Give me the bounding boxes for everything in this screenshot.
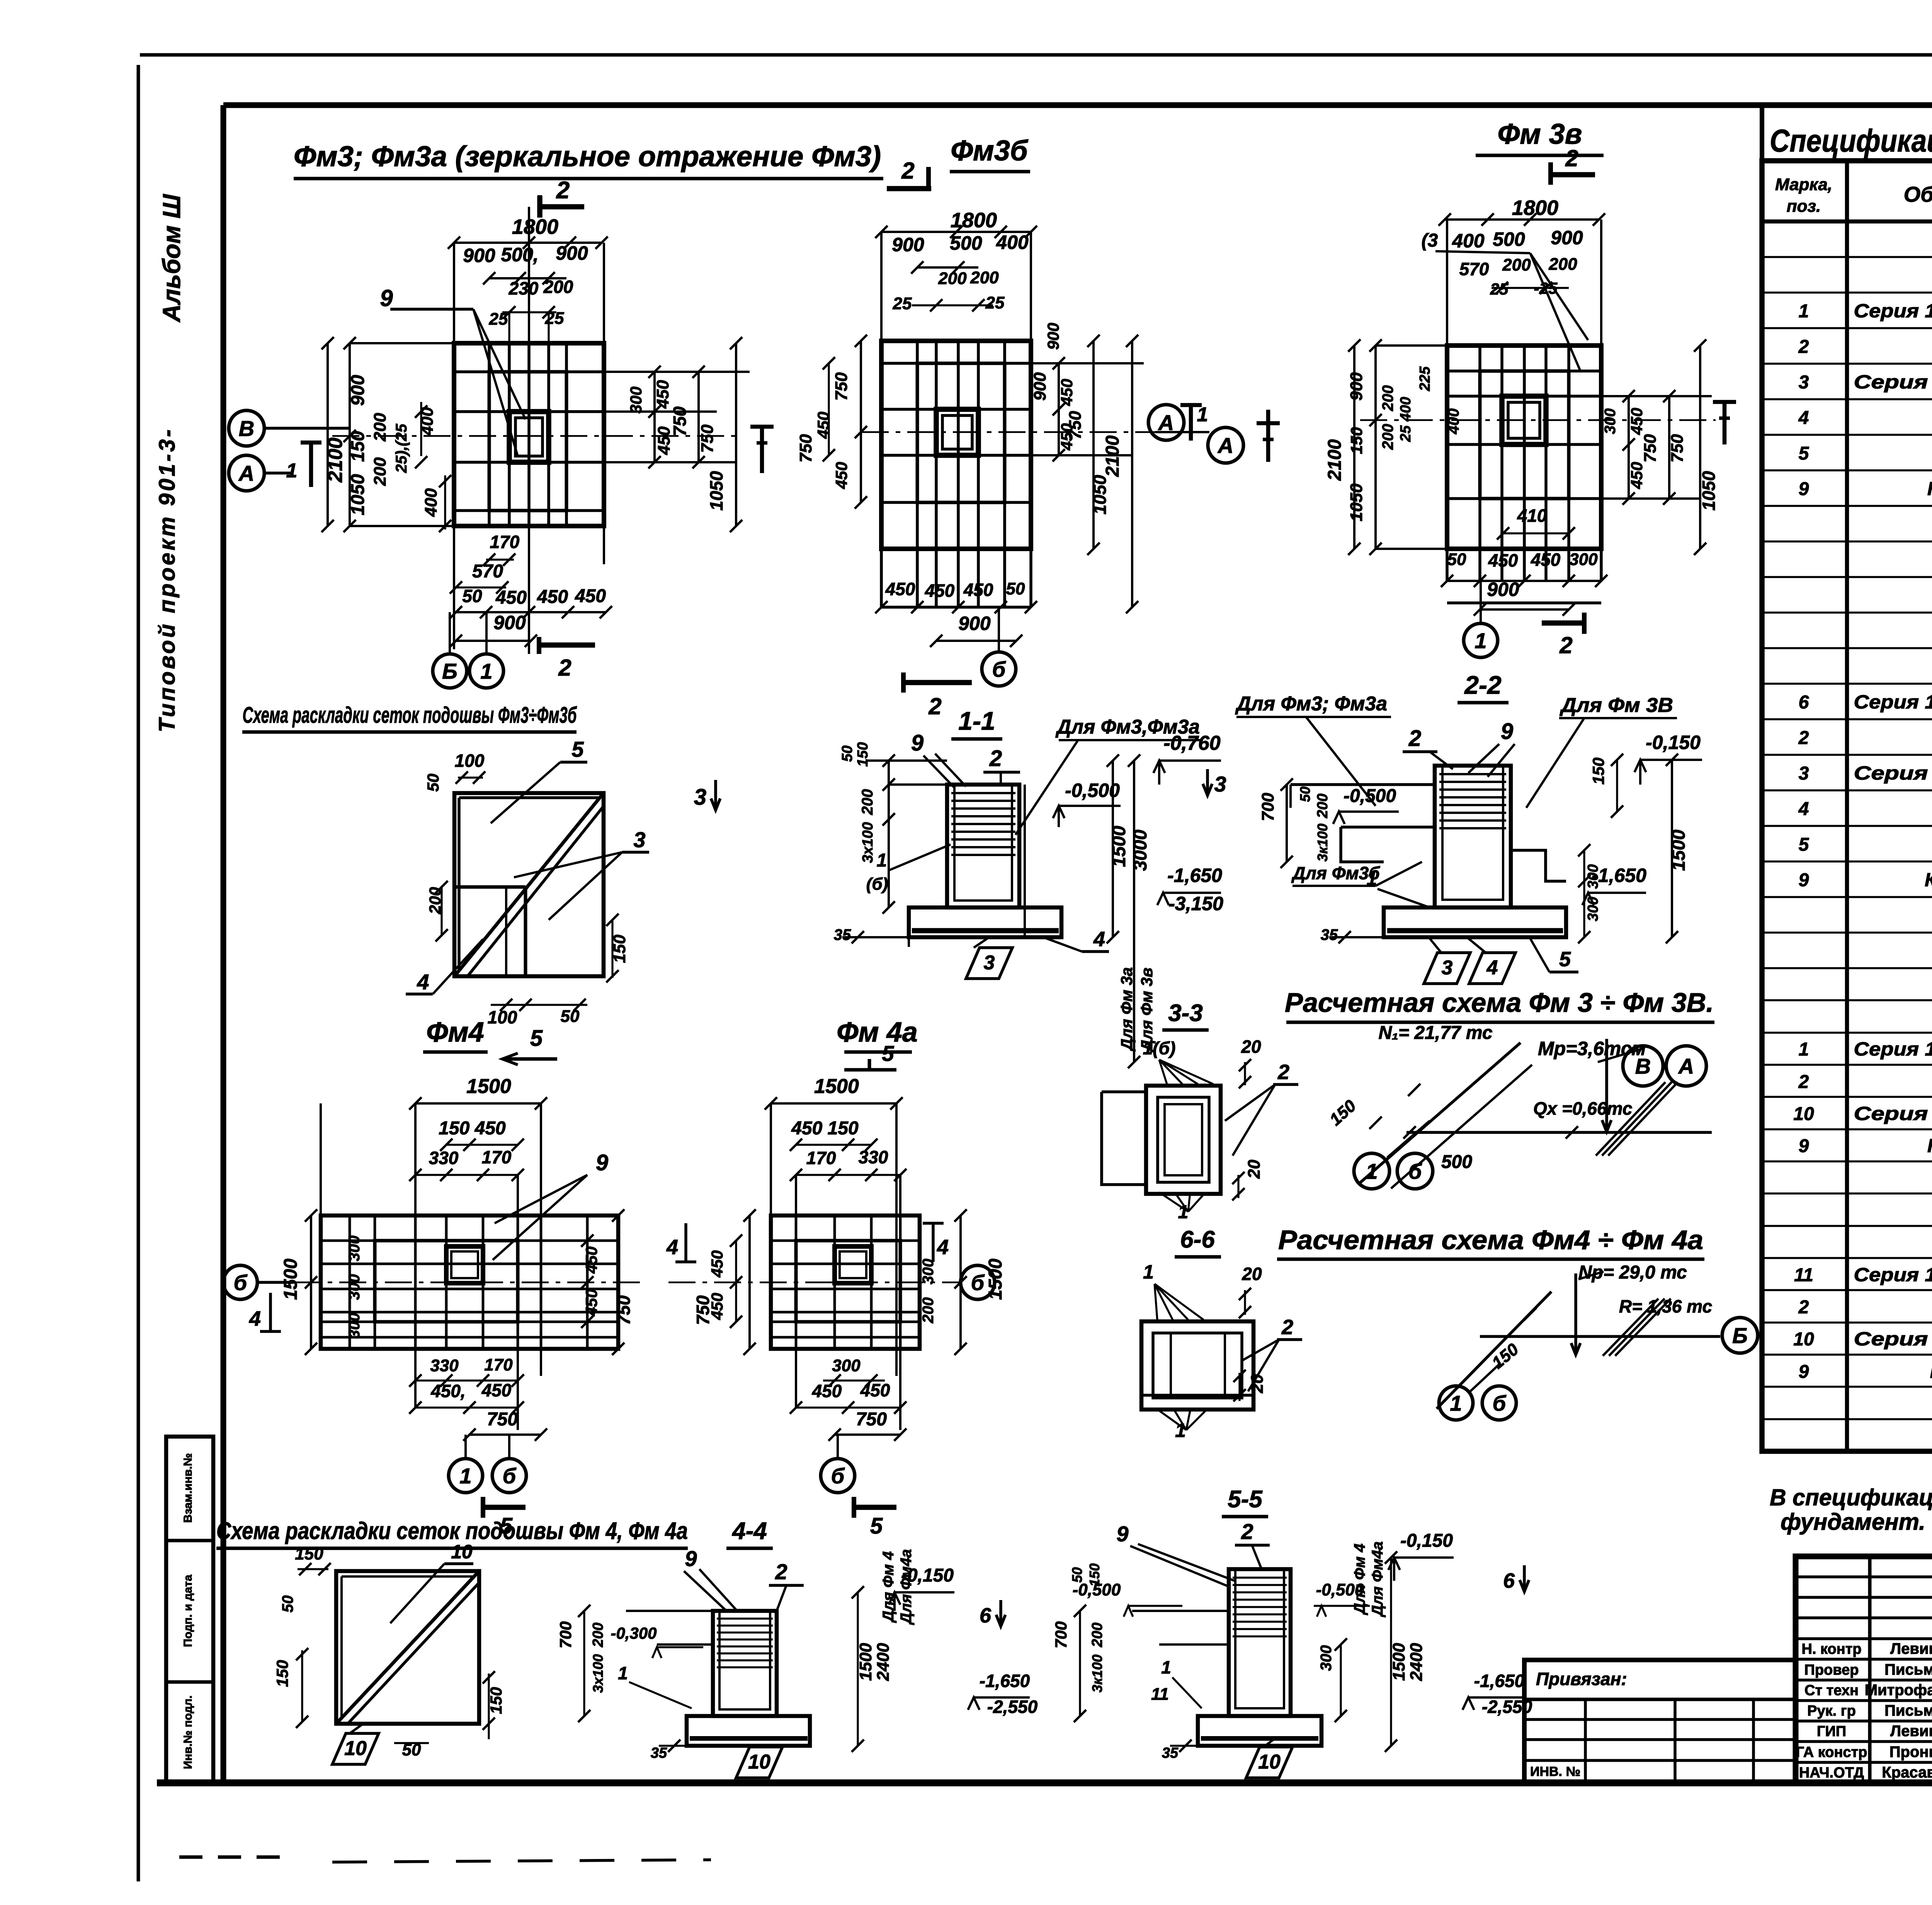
svg-text:450: 450 <box>653 380 672 409</box>
svg-text:35: 35 <box>1162 1745 1179 1761</box>
svg-text:750: 750 <box>698 424 717 453</box>
svg-text:300: 300 <box>1569 550 1598 569</box>
svg-text:R= 1,36 тс: R= 1,36 тс <box>1619 1296 1712 1316</box>
svg-text:700: 700 <box>1259 793 1277 821</box>
svg-text:150: 150 <box>1087 1563 1102 1587</box>
svg-text:450: 450 <box>1488 550 1518 570</box>
svg-text:ГИП: ГИП <box>1817 1723 1846 1740</box>
svg-text:50: 50 <box>1297 787 1313 802</box>
svg-text:1500: 1500 <box>856 1643 875 1681</box>
svg-text:2: 2 <box>556 177 570 204</box>
svg-text:25 400: 25 400 <box>1398 397 1414 442</box>
svg-text:Расчетная схема Фм 3 ÷ Фм 3В.: Расчетная схема Фм 3 ÷ Фм 3В. <box>1285 987 1714 1018</box>
svg-text:10: 10 <box>1793 1329 1814 1350</box>
svg-text:-1,650: -1,650 <box>1474 1671 1525 1691</box>
svg-text:б: б <box>1493 1391 1507 1415</box>
svg-text:-1,650: -1,650 <box>980 1671 1030 1691</box>
svg-text:200: 200 <box>371 457 389 486</box>
svg-text:750: 750 <box>487 1409 518 1430</box>
svg-text:Красавин: Красавин <box>1882 1764 1932 1781</box>
svg-text:1800: 1800 <box>951 209 997 232</box>
svg-text:450: 450 <box>885 579 915 599</box>
svg-text:-0,500: -0,500 <box>1344 786 1396 806</box>
svg-text:КЖИ- МН1: КЖИ- МН1 <box>1927 1136 1932 1156</box>
svg-text:3: 3 <box>1214 772 1226 796</box>
svg-text:Рук. гр: Рук. гр <box>1807 1703 1856 1719</box>
svg-text:750: 750 <box>832 372 851 401</box>
svg-text:170: 170 <box>484 1355 513 1374</box>
svg-text:Серия 1.410-2 Вып.1: Серия 1.410-2 Вып.1 <box>1854 1103 1932 1124</box>
svg-text:Расчетная схема Фм4 ÷ Фм 4а: Расчетная схема Фм4 ÷ Фм 4а <box>1278 1225 1703 1255</box>
svg-text:3-3: 3-3 <box>1168 1000 1203 1027</box>
svg-text:20: 20 <box>1245 1159 1264 1179</box>
svg-text:300: 300 <box>346 1274 363 1300</box>
svg-text:Привязан:: Привязан: <box>1536 1669 1627 1689</box>
svg-text:-0,300: -0,300 <box>611 1624 656 1642</box>
svg-text:5: 5 <box>1559 948 1571 971</box>
svg-text:200: 200 <box>970 268 999 287</box>
svg-text:50: 50 <box>1006 579 1025 598</box>
svg-text:150: 150 <box>348 431 368 462</box>
svg-text:Серия 1.412-1/77 Вып.3: Серия 1.412-1/77 Вып.3 <box>1854 301 1932 322</box>
svg-text:450: 450 <box>1628 462 1646 489</box>
svg-text:50: 50 <box>462 586 482 606</box>
svg-text:300: 300 <box>1318 1645 1335 1671</box>
svg-text:б: б <box>234 1270 248 1295</box>
svg-text:А: А <box>238 461 254 485</box>
svg-text:1500: 1500 <box>1109 826 1129 867</box>
svg-text:Взам.инв.№: Взам.инв.№ <box>182 1453 194 1523</box>
svg-text:400: 400 <box>1445 409 1462 435</box>
svg-text:900: 900 <box>1347 372 1366 401</box>
svg-text:Н. контр: Н. контр <box>1801 1641 1861 1657</box>
svg-text:750: 750 <box>796 434 815 463</box>
svg-text:5-5: 5-5 <box>1228 1486 1263 1513</box>
svg-text:1500: 1500 <box>1668 829 1689 871</box>
svg-text:1: 1 <box>1366 1159 1378 1183</box>
svg-text:5: 5 <box>870 1513 883 1539</box>
svg-text:1050: 1050 <box>1699 471 1719 511</box>
svg-text:750: 750 <box>856 1409 887 1430</box>
svg-text:4: 4 <box>1093 928 1105 951</box>
svg-text:450: 450 <box>1628 408 1646 435</box>
svg-text:25: 25 <box>545 309 564 328</box>
svg-text:Серия 1.412-1/77 Вып.3: Серия 1.412-1/77 Вып.3 <box>1854 1265 1932 1285</box>
svg-text:450: 450 <box>481 1380 512 1400</box>
svg-text:Мр=3,6тсм: Мр=3,6тсм <box>1538 1038 1646 1059</box>
svg-text:2100: 2100 <box>1102 435 1123 477</box>
svg-text:2: 2 <box>928 693 941 719</box>
svg-text:330: 330 <box>859 1147 888 1167</box>
svg-text:1: 1 <box>1799 301 1809 322</box>
svg-text:3: 3 <box>1442 957 1453 979</box>
svg-text:б: б <box>503 1464 517 1488</box>
svg-text:10: 10 <box>748 1751 770 1773</box>
svg-text:150: 150 <box>273 1660 291 1687</box>
svg-text:5: 5 <box>530 1026 543 1051</box>
svg-text:3к100: 3к100 <box>1315 824 1330 861</box>
svg-text:450: 450 <box>708 1250 726 1278</box>
svg-text:900: 900 <box>556 242 588 264</box>
svg-text:300: 300 <box>1602 409 1619 434</box>
svg-text:3: 3 <box>633 827 645 852</box>
svg-text:200: 200 <box>590 1622 606 1647</box>
svg-text:900: 900 <box>348 375 368 406</box>
svg-text:700: 700 <box>556 1621 575 1648</box>
svg-text:330: 330 <box>429 1148 459 1168</box>
svg-text:150 450: 150 450 <box>439 1118 506 1139</box>
svg-text:2400: 2400 <box>1407 1643 1426 1681</box>
svg-text:900: 900 <box>493 612 526 633</box>
svg-text:170: 170 <box>806 1148 836 1168</box>
svg-text:Серия 1.410-2 Вып.1: Серия 1.410-2 Вып.1 <box>1854 372 1932 393</box>
svg-text:330: 330 <box>430 1356 459 1375</box>
svg-text:10: 10 <box>451 1541 473 1563</box>
svg-text:300: 300 <box>346 1313 363 1339</box>
svg-text:2: 2 <box>558 655 571 681</box>
svg-text:1-1: 1-1 <box>958 707 995 735</box>
svg-text:(б): (б) <box>866 875 888 894</box>
svg-text:-3,150: -3,150 <box>1168 893 1223 914</box>
svg-text:150: 150 <box>295 1544 323 1563</box>
svg-text:2: 2 <box>1559 632 1572 658</box>
svg-text:200: 200 <box>543 277 573 297</box>
svg-text:230: 230 <box>509 278 539 298</box>
svg-text:10: 10 <box>1793 1104 1814 1124</box>
svg-text:5: 5 <box>571 737 584 761</box>
svg-text:170: 170 <box>490 532 520 552</box>
svg-text:170: 170 <box>482 1147 512 1167</box>
svg-text:1050: 1050 <box>1090 475 1110 514</box>
svg-text:50: 50 <box>1069 1567 1085 1583</box>
svg-text:450: 450 <box>812 1381 842 1401</box>
svg-text:3000: 3000 <box>1130 829 1151 871</box>
svg-text:КЖИ - МН1: КЖИ - МН1 <box>1925 870 1932 890</box>
svg-text:450 150: 450 150 <box>791 1118 859 1139</box>
svg-text:ИНВ. №: ИНВ. № <box>1530 1764 1580 1779</box>
svg-text:11: 11 <box>1794 1265 1813 1285</box>
svg-text:4: 4 <box>937 1236 949 1259</box>
svg-text:б: б <box>831 1464 845 1488</box>
svg-text:2: 2 <box>1565 145 1578 171</box>
svg-text:570: 570 <box>1459 259 1489 279</box>
svg-text:1: 1 <box>1161 1657 1171 1677</box>
svg-text:1050: 1050 <box>348 474 368 515</box>
svg-text:450: 450 <box>582 1289 600 1316</box>
svg-text:Провер: Провер <box>1804 1662 1859 1678</box>
svg-text:25: 25 <box>489 310 508 329</box>
svg-text:450: 450 <box>495 587 527 608</box>
svg-text:9: 9 <box>1799 1362 1809 1382</box>
svg-text:Подп. и дата: Подп. и дата <box>182 1575 194 1647</box>
svg-text:9: 9 <box>380 285 393 311</box>
svg-text:1: 1 <box>1197 403 1208 426</box>
svg-text:200: 200 <box>371 413 389 442</box>
svg-text:Для Фм 3В: Для Фм 3В <box>1560 694 1673 717</box>
svg-text:2: 2 <box>1798 337 1809 357</box>
svg-text:200: 200 <box>1379 385 1396 412</box>
svg-text:9: 9 <box>1501 719 1513 744</box>
svg-text:450: 450 <box>925 581 955 601</box>
svg-text:500: 500 <box>1441 1152 1472 1172</box>
svg-text:Серия 1.412-1/77 Вып.3: Серия 1.412-1/77 Вып.3 <box>1854 1039 1932 1060</box>
svg-text:10: 10 <box>1258 1751 1281 1773</box>
svg-text:-1,650: -1,650 <box>1167 865 1222 886</box>
svg-text:Фм 4а: Фм 4а <box>837 1017 918 1048</box>
svg-text:Серия 1.410-2 Вып.1: Серия 1.410-2 Вып.1 <box>1854 763 1932 784</box>
svg-text:4: 4 <box>1798 408 1809 428</box>
svg-text:100: 100 <box>455 751 485 771</box>
svg-text:3: 3 <box>694 785 706 810</box>
svg-text:2: 2 <box>901 158 914 184</box>
svg-text:50: 50 <box>424 774 442 792</box>
svg-text:200: 200 <box>1548 255 1577 274</box>
svg-text:Для Фм 3а: Для Фм 3а <box>1117 967 1136 1051</box>
svg-text:750: 750 <box>670 406 690 436</box>
svg-text:6: 6 <box>980 1604 992 1627</box>
svg-text:1500: 1500 <box>466 1075 511 1098</box>
svg-text:1500: 1500 <box>814 1075 859 1098</box>
svg-text:900: 900 <box>958 613 991 634</box>
svg-text:Для Фм 4: Для Фм 4 <box>1351 1544 1368 1616</box>
svg-text:20: 20 <box>1242 1264 1262 1284</box>
svg-text:3x100: 3x100 <box>590 1654 606 1693</box>
svg-text:500: 500 <box>950 232 982 254</box>
svg-text:-0,760: -0,760 <box>1163 732 1221 754</box>
svg-text:Фм3; Фм3а (зеркальное отражени: Фм3; Фм3а (зеркальное отражение Фм3) <box>294 140 881 172</box>
svg-text:В спецификации в графе „примеч: В спецификации в графе „примечание" дан … <box>1770 1485 1932 1510</box>
svg-text:1: 1 <box>877 850 887 871</box>
svg-text:1(б): 1(б) <box>1143 1038 1176 1058</box>
svg-text:N₁= 21,77 тс: N₁= 21,77 тс <box>1378 1023 1492 1043</box>
svg-text:(3: (3 <box>1422 230 1438 251</box>
svg-text:900: 900 <box>1487 579 1519 600</box>
svg-text:5: 5 <box>1799 443 1810 464</box>
svg-text:2: 2 <box>1408 726 1421 751</box>
svg-text:поз.: поз. <box>1787 197 1821 216</box>
svg-text:2: 2 <box>1281 1316 1293 1339</box>
svg-text:750: 750 <box>693 1295 713 1325</box>
svg-text:400: 400 <box>1452 230 1485 252</box>
svg-text:1: 1 <box>1799 1039 1809 1060</box>
svg-text:Типовой проект 901-3-: Типовой проект 901-3- <box>155 427 180 732</box>
svg-text:Альбом Ш: Альбом Ш <box>158 194 185 323</box>
svg-text:500,: 500, <box>501 244 538 266</box>
svg-text:Qх =0,66тс: Qх =0,66тс <box>1533 1098 1632 1118</box>
svg-text:б: б <box>1408 1159 1422 1183</box>
svg-text:4: 4 <box>417 970 429 994</box>
svg-text:1: 1 <box>1367 869 1377 889</box>
svg-text:4-4: 4-4 <box>731 1518 767 1544</box>
svg-text:900: 900 <box>1031 372 1049 401</box>
svg-text:900: 900 <box>1044 323 1062 350</box>
svg-text:400: 400 <box>422 488 440 517</box>
svg-text:450: 450 <box>832 462 850 489</box>
svg-text:КЖИ-МН1: КЖИ-МН1 <box>1930 1361 1932 1382</box>
svg-text:9: 9 <box>1799 870 1809 890</box>
svg-text:Б: Б <box>442 659 457 683</box>
svg-text:9: 9 <box>1799 1136 1809 1156</box>
svg-text:500: 500 <box>1493 228 1525 250</box>
svg-text:450: 450 <box>537 587 568 607</box>
svg-text:450: 450 <box>1531 550 1561 570</box>
svg-text:3: 3 <box>1799 763 1809 784</box>
svg-text:Для Фм 4: Для Фм 4 <box>880 1551 897 1623</box>
svg-text:570: 570 <box>472 561 503 582</box>
svg-text:б: б <box>971 1270 985 1295</box>
svg-text:1050: 1050 <box>1347 483 1366 521</box>
svg-text:4: 4 <box>1486 957 1498 979</box>
svg-text:1: 1 <box>1143 1261 1154 1283</box>
svg-text:6: 6 <box>1503 1569 1515 1592</box>
svg-text:25),(25: 25),(25 <box>393 424 410 473</box>
svg-text:300: 300 <box>832 1356 861 1375</box>
svg-text:2-2: 2-2 <box>1464 671 1502 699</box>
svg-text:Пронин: Пронин <box>1889 1743 1932 1760</box>
svg-text:450: 450 <box>860 1380 890 1400</box>
svg-text:200: 200 <box>859 789 876 815</box>
svg-text:11: 11 <box>1151 1685 1169 1704</box>
svg-text:Левина: Левина <box>1890 1723 1932 1740</box>
svg-text:6: 6 <box>1799 692 1809 713</box>
svg-text:225: 225 <box>1417 366 1433 391</box>
svg-text:700: 700 <box>1052 1621 1070 1648</box>
svg-text:В: В <box>1635 1054 1651 1078</box>
svg-text:200: 200 <box>1089 1622 1105 1647</box>
svg-text:-0,150: -0,150 <box>1646 732 1701 753</box>
svg-text:А: А <box>1217 433 1233 458</box>
svg-text:-2,550: -2,550 <box>987 1697 1038 1717</box>
svg-text:5: 5 <box>1799 834 1810 855</box>
svg-text:Схема раскладки сеток подошвы: Схема раскладки сеток подошвы Фм3÷Фм3б <box>243 703 577 728</box>
svg-text:450,: 450, <box>430 1381 466 1401</box>
svg-text:б: б <box>992 657 1006 681</box>
svg-text:1800: 1800 <box>512 215 558 238</box>
svg-text:200: 200 <box>1502 255 1531 274</box>
svg-text:150: 150 <box>1347 427 1366 454</box>
svg-text:300: 300 <box>1585 897 1601 921</box>
svg-text:Для Фм4а: Для Фм4а <box>1369 1541 1386 1617</box>
svg-text:Инв.№ подл.: Инв.№ подл. <box>182 1696 194 1769</box>
svg-text:Б: Б <box>1732 1323 1748 1348</box>
svg-text:1: 1 <box>618 1663 628 1683</box>
svg-text:2: 2 <box>775 1559 787 1584</box>
svg-text:9: 9 <box>685 1546 697 1571</box>
svg-text:Митрофанова: Митрофанова <box>1865 1682 1932 1699</box>
svg-text:150: 150 <box>1589 758 1607 785</box>
svg-text:9: 9 <box>1116 1522 1128 1546</box>
svg-text:300: 300 <box>920 1259 937 1285</box>
svg-text:300: 300 <box>627 386 645 414</box>
svg-text:450: 450 <box>575 586 606 606</box>
svg-text:1: 1 <box>480 659 492 683</box>
svg-text:ГА констр: ГА констр <box>1796 1744 1867 1760</box>
svg-text:750: 750 <box>1641 434 1660 463</box>
svg-text:150: 150 <box>855 742 871 766</box>
svg-text:В: В <box>239 416 254 441</box>
svg-text:35: 35 <box>834 926 851 943</box>
svg-text:35: 35 <box>1321 926 1338 943</box>
svg-text:25: 25 <box>985 293 1005 312</box>
svg-text:1500: 1500 <box>1389 1643 1408 1681</box>
svg-text:50: 50 <box>1447 550 1466 569</box>
svg-text:3к100: 3к100 <box>1089 1655 1105 1692</box>
svg-text:400: 400 <box>996 232 1029 253</box>
svg-text:1: 1 <box>1450 1391 1462 1415</box>
svg-text:Обозначение: Обозначение <box>1904 182 1932 206</box>
svg-text:Ст техн: Ст техн <box>1804 1682 1859 1699</box>
svg-text:А: А <box>1678 1054 1694 1078</box>
svg-text:410: 410 <box>1517 506 1547 526</box>
svg-text:10: 10 <box>344 1737 367 1760</box>
svg-text:Фм3б: Фм3б <box>951 134 1029 167</box>
svg-text:2: 2 <box>1241 1519 1253 1544</box>
svg-text:фундамент.: фундамент. <box>1781 1509 1925 1535</box>
svg-text:Фм4: Фм4 <box>426 1017 484 1048</box>
svg-text:35: 35 <box>651 1745 667 1761</box>
svg-text:Левина: Левина <box>1890 1640 1932 1657</box>
svg-text:1: 1 <box>286 460 298 482</box>
svg-text:Серия 1,400-2 Вып.1: Серия 1,400-2 Вып.1 <box>1854 1329 1932 1350</box>
svg-text:450: 450 <box>963 580 993 600</box>
svg-text:2: 2 <box>989 746 1002 771</box>
svg-text:50: 50 <box>279 1595 296 1613</box>
svg-text:9: 9 <box>911 730 923 756</box>
svg-text:750: 750 <box>1668 434 1687 463</box>
svg-text:9: 9 <box>596 1150 608 1175</box>
svg-text:6-6: 6-6 <box>1180 1226 1215 1253</box>
svg-text:2100: 2100 <box>1325 439 1345 481</box>
svg-text:2400: 2400 <box>874 1643 893 1681</box>
svg-text:9: 9 <box>1799 479 1809 499</box>
svg-text:Для Фм3; Фм3а: Для Фм3; Фм3а <box>1235 693 1387 715</box>
svg-text:-2,550: -2,550 <box>1482 1697 1532 1717</box>
svg-text:Письман: Письман <box>1884 1661 1932 1678</box>
svg-text:20: 20 <box>1248 1374 1267 1393</box>
svg-text:Марка,: Марка, <box>1775 175 1832 194</box>
svg-text:Письман: Письман <box>1884 1702 1932 1719</box>
svg-text:900: 900 <box>1551 227 1583 249</box>
svg-text:450: 450 <box>1058 379 1076 406</box>
svg-text:Спецификация элементов монолит: Спецификация элементов монолитной констр… <box>1770 123 1932 158</box>
svg-text:НАЧ.ОТД: НАЧ.ОТД <box>1799 1765 1864 1781</box>
svg-text:200: 200 <box>938 269 967 288</box>
svg-text:Для Фм4а: Для Фм4а <box>898 1549 915 1625</box>
svg-text:2: 2 <box>1798 728 1809 748</box>
svg-text:750: 750 <box>614 1295 634 1325</box>
svg-text:750: 750 <box>1066 411 1085 439</box>
svg-text:50: 50 <box>839 746 855 762</box>
svg-text:3: 3 <box>1799 372 1809 393</box>
svg-text:-0,150: -0,150 <box>1400 1530 1453 1551</box>
svg-text:4: 4 <box>666 1236 678 1259</box>
svg-text:4: 4 <box>249 1307 261 1330</box>
svg-text:Схема раскладки сеток подошвы: Схема раскладки сеток подошвы Фм 4, Фм 4… <box>216 1518 688 1544</box>
svg-text:Серия 1.412-1/77 Вып.3: Серия 1.412-1/77 Вып.3 <box>1854 692 1932 713</box>
svg-text:900: 900 <box>463 245 495 266</box>
svg-text:-0,500: -0,500 <box>1065 780 1120 801</box>
svg-text:450: 450 <box>582 1246 600 1274</box>
svg-text:1500: 1500 <box>281 1258 301 1300</box>
svg-text:1050: 1050 <box>706 471 726 511</box>
svg-text:25: 25 <box>893 294 912 313</box>
svg-text:КЖИ-МН 1: КЖИ-МН 1 <box>1927 478 1932 499</box>
svg-text:200: 200 <box>1315 793 1331 818</box>
svg-text:900: 900 <box>892 234 924 255</box>
svg-text:1: 1 <box>459 1464 471 1488</box>
svg-text:2: 2 <box>1277 1061 1289 1084</box>
svg-text:2: 2 <box>1798 1072 1809 1092</box>
